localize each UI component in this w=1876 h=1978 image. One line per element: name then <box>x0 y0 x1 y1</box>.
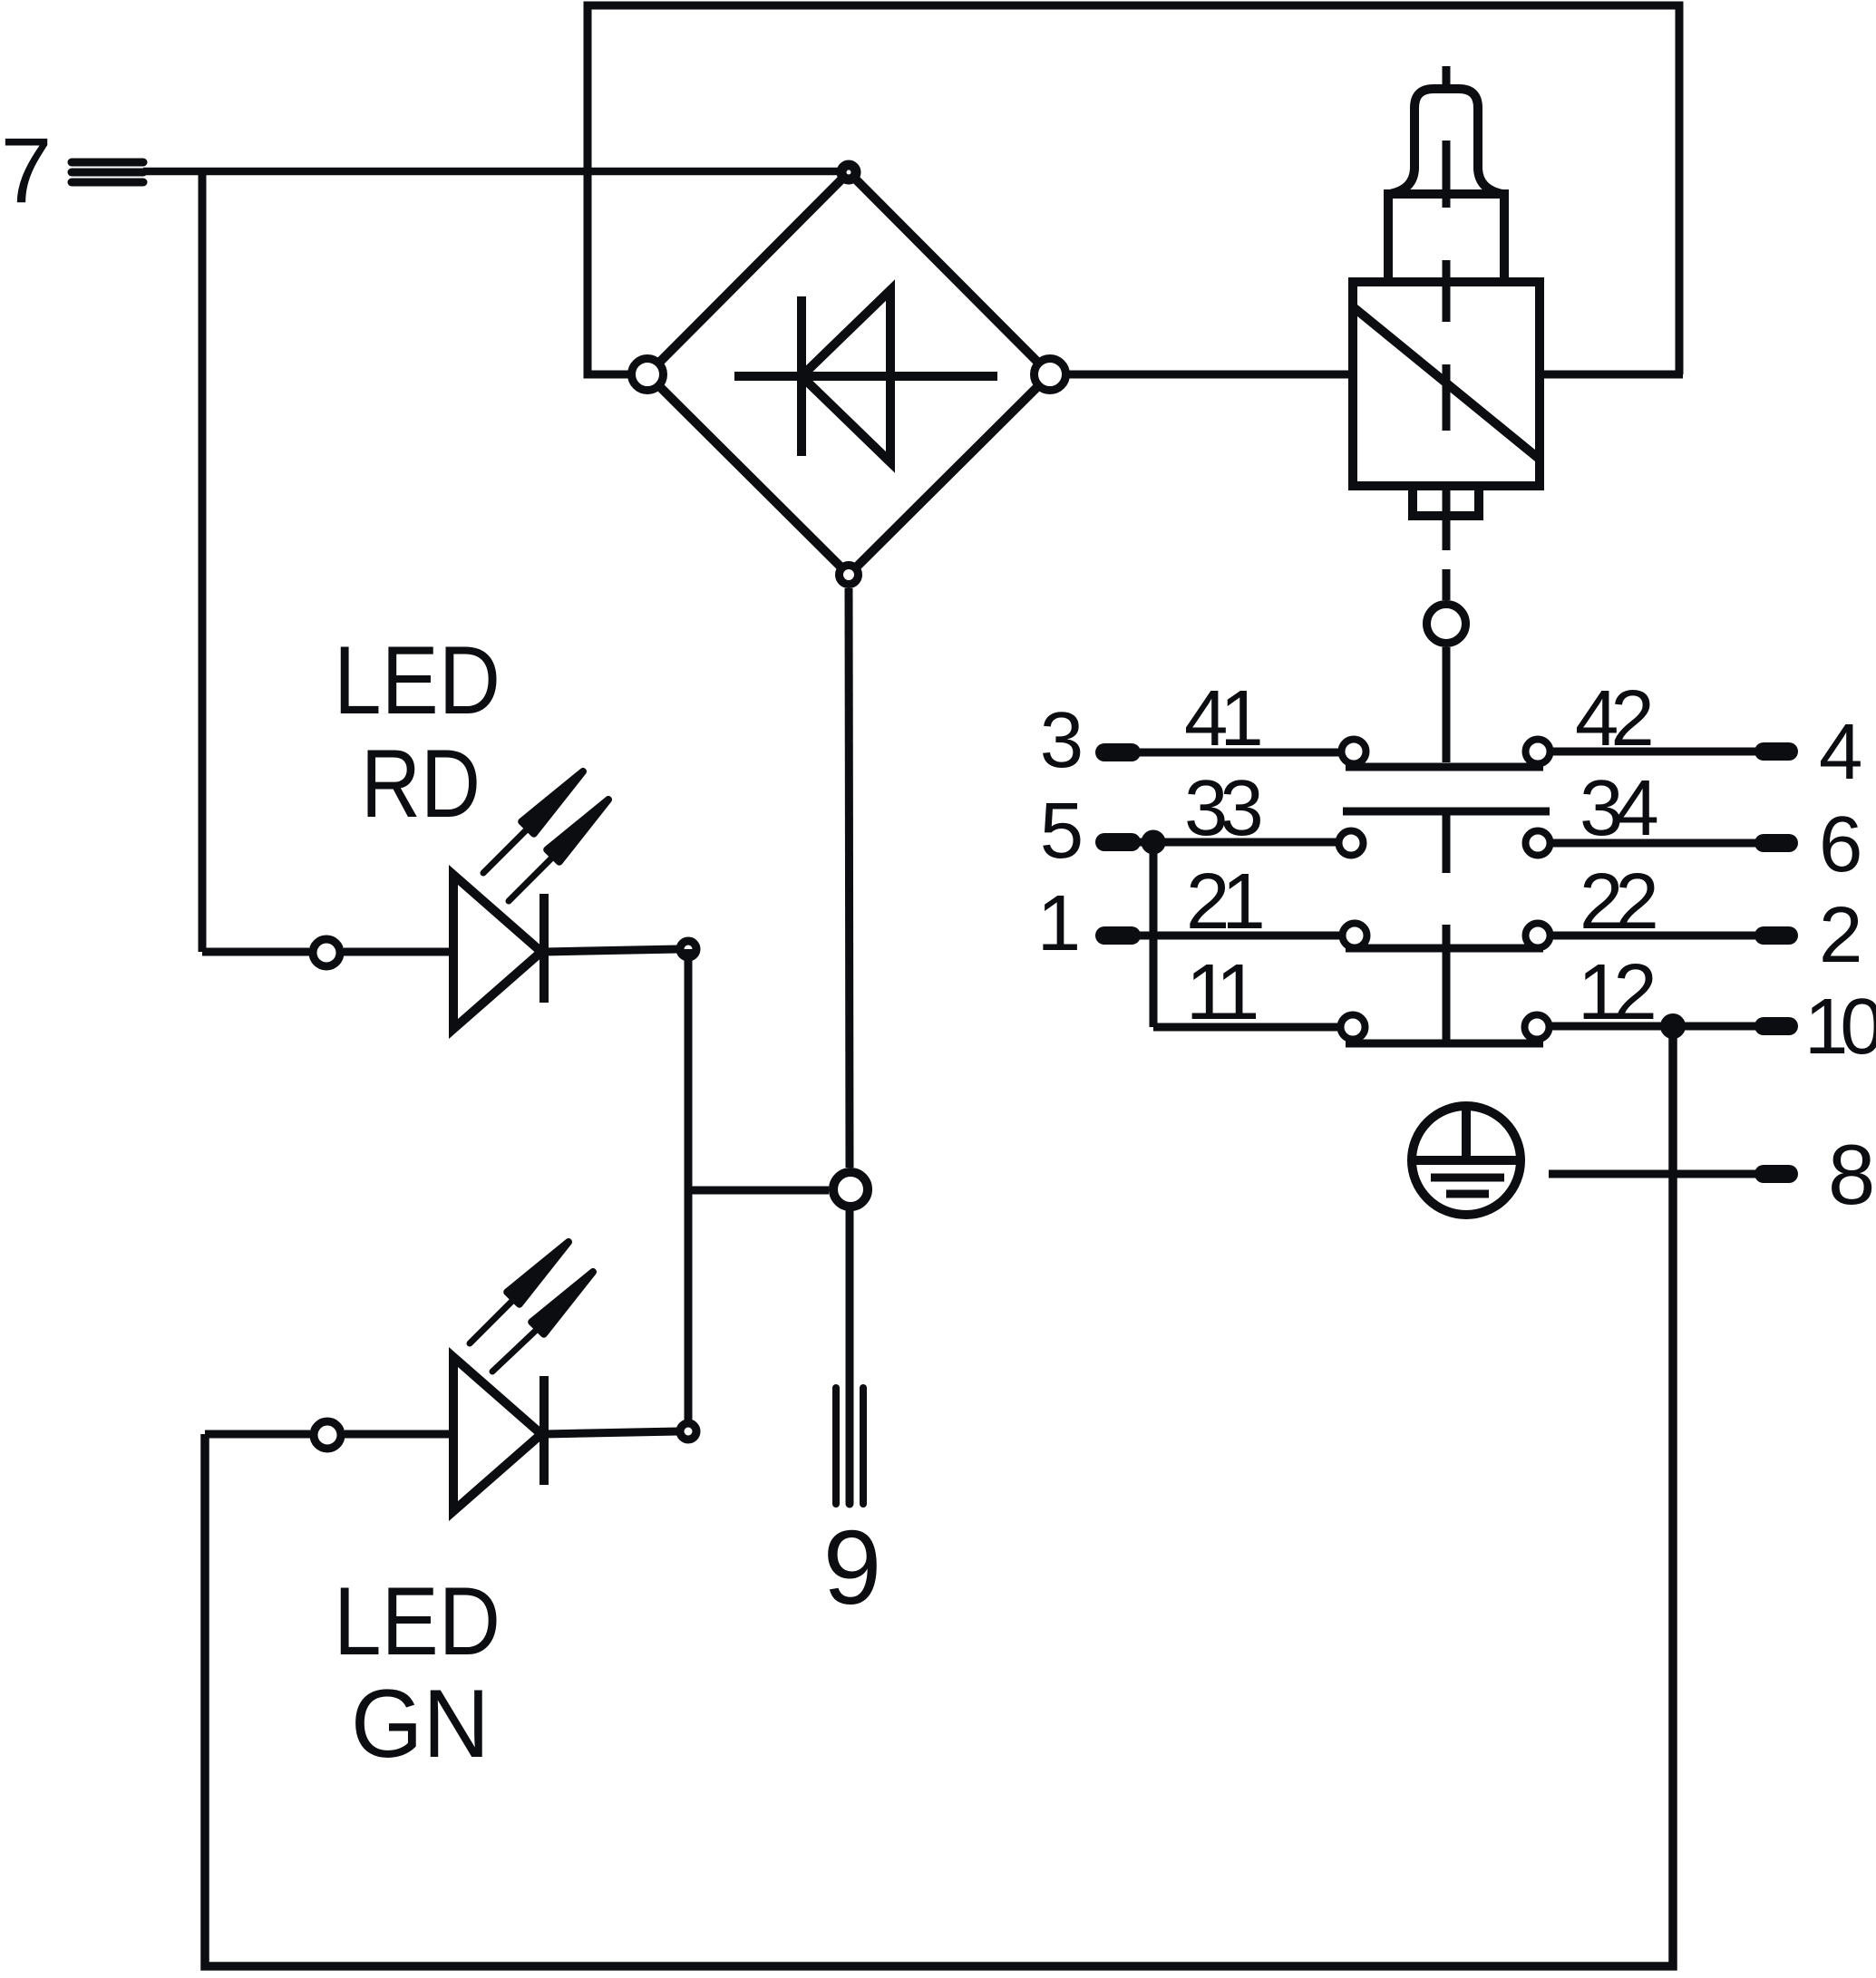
contact 42 circle <box>1526 740 1550 764</box>
wire 10 junction to bottom loop to LED GN <box>205 1026 1673 1966</box>
wire branch to cable 9 node <box>688 1187 829 1195</box>
wire LED RD to junction <box>544 949 678 952</box>
wire 22 to terminal 2 <box>1552 932 1764 940</box>
svg-text:RD: RD <box>361 729 481 838</box>
wire LED GN to junction <box>544 1431 678 1434</box>
LED RD triangle <box>453 875 541 1029</box>
svg-text:LED: LED <box>334 625 501 734</box>
wire top loop <box>588 5 1679 374</box>
contact 11-12 bridge <box>1346 1040 1543 1048</box>
wire to LED RD anode <box>202 948 309 956</box>
protective earth symbol <box>1412 1106 1521 1215</box>
wire 3 to contact 41 <box>1132 749 1339 757</box>
terminal 3 pin stub <box>1104 743 1132 761</box>
node bridge top junction <box>841 165 856 179</box>
shield symbol (cable 9 screen) <box>836 1388 863 1504</box>
terminal 6 pin stub <box>1764 834 1789 852</box>
wire 42 to terminal 4 <box>1552 748 1764 756</box>
svg-text:41: 41 <box>1184 674 1260 762</box>
LED GN arrow 1 <box>470 1242 569 1343</box>
svg-text:11: 11 <box>1186 948 1257 1036</box>
contact 22 circle <box>1526 924 1550 948</box>
wire bridge bottom down <box>849 588 850 1168</box>
contact 33 circle <box>1339 831 1364 856</box>
svg-text:10: 10 <box>1804 983 1876 1071</box>
svg-text:3: 3 <box>1040 696 1084 784</box>
terminal 1 pin stub <box>1104 926 1132 945</box>
wire bridge right to solenoid <box>1066 371 1353 379</box>
contact 12 circle <box>1525 1015 1550 1040</box>
contact 41-42 bridge <box>1346 763 1543 771</box>
wire LED outputs vertical <box>685 949 693 1431</box>
solenoid Y1 collar <box>1388 194 1504 282</box>
LED RD arrow 1 <box>483 771 583 873</box>
wire 1 to contact 21 <box>1132 932 1339 940</box>
wire from 7 to bridge top <box>143 168 849 176</box>
solenoid Y1 diagonal <box>1355 308 1538 458</box>
node LED GN output <box>680 1423 696 1440</box>
svg-text:5: 5 <box>1040 787 1084 875</box>
contact 33-34 NC bar <box>1343 808 1550 816</box>
svg-text:2: 2 <box>1819 891 1862 979</box>
bridge rectifier V1 diamond <box>647 172 1050 575</box>
wire circle to LED RD <box>344 948 453 956</box>
actuator rod through 33-34 <box>1443 811 1451 873</box>
solenoid Y1 armature bulb <box>1390 89 1502 194</box>
solenoid Y1 plunger foot <box>1413 486 1479 516</box>
actuator dashed center line <box>1443 66 1451 600</box>
terminal 4 pin stub <box>1764 742 1789 761</box>
wire 12 to terminal 10 <box>1551 1023 1764 1031</box>
node bridge left terminal <box>632 359 664 391</box>
bus wire 5 to 11 <box>1150 842 1158 1027</box>
terminal 10 pin stub <box>1764 1017 1789 1035</box>
wire circle to LED GN <box>345 1430 453 1439</box>
actuator coupling circle <box>1427 605 1466 644</box>
LED GN arrow 2 <box>492 1272 593 1372</box>
svg-text:8: 8 <box>1828 1127 1875 1222</box>
node cable 9 junction <box>833 1172 868 1207</box>
terminal 5 pin stub <box>1104 833 1132 851</box>
contact 34 circle <box>1526 831 1550 856</box>
LED GN anode circle <box>314 1421 341 1449</box>
contact 11 circle <box>1341 1015 1366 1040</box>
svg-text:34: 34 <box>1580 764 1657 852</box>
node LED RD output <box>680 941 696 957</box>
shield symbol (cable 7 screen) <box>72 162 143 182</box>
svg-text:GN: GN <box>351 1669 490 1778</box>
LED RD arrow 2 <box>509 800 608 901</box>
contact 21 circle <box>1343 924 1367 948</box>
actuator rod to contacts <box>1443 647 1451 762</box>
wire junction to shield 9 <box>846 1211 854 1504</box>
wire 34 to terminal 6 <box>1552 839 1764 848</box>
contact 21-22 bridge <box>1346 945 1543 953</box>
wire 5 to contact 33 <box>1132 839 1337 847</box>
terminal 8 pin stub <box>1764 1165 1789 1183</box>
terminal 2 pin stub <box>1764 926 1789 945</box>
actuator rod through 21-22 to 11-12 <box>1443 925 1451 1043</box>
svg-text:7: 7 <box>1 119 53 222</box>
wire solenoid right to loop <box>1540 371 1683 379</box>
wire earth to terminal 8 <box>1549 1170 1764 1178</box>
node junction at 5 <box>1145 834 1162 850</box>
solenoid Y1 coil box <box>1353 282 1540 486</box>
svg-text:9: 9 <box>823 1508 882 1626</box>
LED GN cathode bar <box>539 1376 549 1485</box>
wire bus corner to contact 11 <box>1153 1023 1341 1032</box>
svg-text:1: 1 <box>1037 879 1081 967</box>
LED RD cathode bar <box>539 894 549 1003</box>
node junction at 10 <box>1665 1018 1682 1035</box>
svg-text:6: 6 <box>1819 800 1862 888</box>
svg-text:4: 4 <box>1819 708 1862 796</box>
contact 41 circle <box>1342 740 1366 764</box>
diode D1 inside bridge <box>734 290 997 462</box>
node bridge right terminal <box>1035 359 1066 391</box>
wire branch down to LED RD <box>199 171 207 952</box>
svg-text:21: 21 <box>1186 858 1262 945</box>
node bridge bottom terminal <box>840 566 859 585</box>
wire to LED GN anode <box>205 1430 310 1439</box>
svg-text:33: 33 <box>1184 764 1260 852</box>
LED RD anode circle <box>313 939 340 966</box>
LED GN triangle <box>453 1357 541 1511</box>
svg-text:LED: LED <box>334 1566 501 1675</box>
